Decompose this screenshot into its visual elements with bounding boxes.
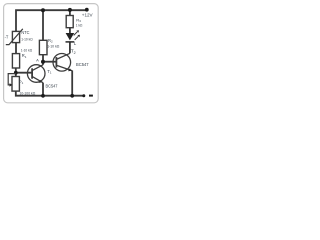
svg-text:1-10 kΩ: 1-10 kΩ — [21, 37, 32, 41]
transistor T2 — [53, 53, 72, 71]
terminal dot bottom rail — [82, 94, 85, 97]
svg-text:BC547: BC547 — [46, 83, 59, 88]
label minus terminal — [89, 95, 93, 97]
wire T2 emitter down — [71, 71, 73, 96]
wire LED to T2 collector — [69, 43, 71, 54]
wire T1 emitter down — [42, 83, 44, 96]
junction dot T1 emitter — [41, 94, 45, 98]
wire bottom rail — [16, 91, 84, 96]
svg-text:1-10 kΩ: 1-10 kΩ — [47, 45, 59, 49]
svg-text:R2: R2 — [48, 38, 53, 44]
wire node A to T2 base — [43, 61, 56, 63]
junction dot top R2 — [41, 8, 45, 12]
wire R3 top — [69, 10, 71, 15]
LED D1 — [66, 30, 80, 42]
junction dot top R3 — [68, 8, 72, 12]
wire R1 to pot node — [15, 68, 17, 77]
svg-text:P1: P1 — [19, 79, 24, 85]
svg-text:+12V: +12V — [82, 13, 93, 18]
transistor T1 — [27, 65, 45, 83]
resistor R2 — [39, 40, 47, 54]
resistor R1 — [12, 54, 19, 68]
wire base T1 — [16, 72, 32, 74]
node junction R1/P1/base — [14, 71, 18, 75]
wire NTC to R1 — [15, 42, 17, 54]
svg-text:A: A — [36, 58, 39, 63]
wire R3 to LED — [69, 28, 71, 34]
svg-text:R1: R1 — [22, 53, 27, 59]
svg-text:NTC: NTC — [21, 30, 29, 35]
svg-text:1 kΩ: 1 kΩ — [76, 23, 83, 27]
svg-text:10-100 kΩ: 10-100 kΩ — [20, 92, 36, 96]
svg-text:-T: -T — [5, 34, 9, 39]
background — [0, 0, 100, 105]
node A — [41, 60, 45, 64]
wire R2 to node A — [42, 55, 44, 62]
junction dot T2 emitter — [70, 94, 74, 98]
thermistor -T (NTC) — [6, 29, 23, 45]
svg-text:1-10 kΩ: 1-10 kΩ — [21, 49, 32, 53]
resistor R3 — [66, 16, 73, 28]
svg-text:BC547: BC547 — [76, 62, 89, 67]
terminal dot +12V — [85, 8, 89, 12]
wire R2 top — [42, 10, 44, 40]
wire T1 collector up — [42, 62, 44, 65]
potentiometer P1 — [8, 74, 19, 92]
wire top rail +12V — [16, 10, 87, 32]
